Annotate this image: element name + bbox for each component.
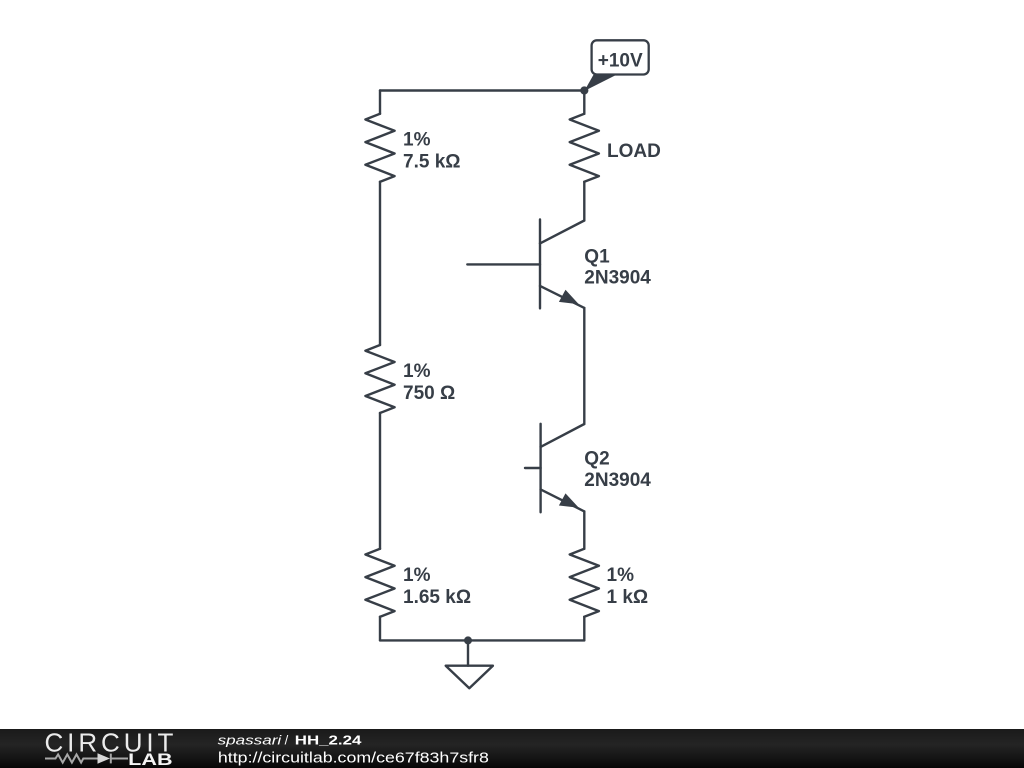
net flag +10V (584, 40, 648, 91)
label R4 value (607, 565, 649, 608)
wire top rail (380, 89, 584, 91)
wire R1 top lead (379, 91, 381, 114)
svg-text:+10V: +10V (598, 50, 643, 71)
svg-text:Q1: Q1 (584, 247, 610, 268)
wire R3 bottom lead (379, 617, 381, 641)
svg-text:1%: 1% (403, 361, 431, 382)
svg-text:HH_2.24: HH_2.24 (295, 733, 363, 748)
resistor LOAD (570, 114, 599, 182)
label R3 value (403, 565, 471, 608)
wire LOAD top lead (583, 91, 585, 114)
svg-text:spassari: spassari (218, 733, 283, 748)
ground (446, 666, 493, 689)
svg-text:LOAD: LOAD (607, 141, 661, 162)
wire R4 bottom lead (583, 617, 585, 641)
svg-text:1%: 1% (403, 130, 431, 151)
node VCC junction dot (580, 86, 588, 94)
logo resistor-diode squiggle (45, 754, 128, 764)
svg-text:/: / (285, 733, 289, 748)
wire LOAD to Q1 collector (583, 182, 585, 221)
wire Q2 emitter to R4 (583, 511, 585, 548)
label Q2 (584, 449, 651, 491)
svg-text:1%: 1% (607, 565, 635, 586)
wire ground stub (467, 640, 469, 665)
wire R1 to R2 (379, 182, 381, 345)
resistor R3 (365, 549, 394, 617)
svg-text:2N3904: 2N3904 (584, 268, 651, 289)
label R1 value (403, 130, 461, 173)
transistor Q1 (467, 220, 584, 309)
svg-text:7.5 kΩ: 7.5 kΩ (403, 152, 461, 173)
label Q1 (584, 247, 651, 289)
wire R2 to R3 (379, 413, 381, 549)
node ground junction dot (464, 636, 472, 644)
resistor R2 (365, 345, 394, 413)
transistor Q2 (525, 424, 584, 513)
svg-text:1 kΩ: 1 kΩ (607, 587, 649, 608)
svg-text:http://circuitlab.com/ce67f83h: http://circuitlab.com/ce67f83h7sfr8 (218, 751, 489, 767)
resistor R4 (570, 549, 599, 617)
svg-text:LAB: LAB (128, 751, 172, 768)
wire Q1 emitter to Q2 collector (583, 308, 585, 424)
svg-text:1.65 kΩ: 1.65 kΩ (403, 587, 471, 608)
svg-text:Q2: Q2 (584, 449, 609, 470)
resistor R1 (365, 114, 394, 182)
svg-text:2N3904: 2N3904 (584, 470, 651, 491)
svg-text:750 Ω: 750 Ω (403, 383, 455, 404)
footer bar (0, 729, 1024, 768)
svg-text:1%: 1% (403, 565, 431, 586)
wire bottom rail (380, 639, 584, 641)
label R2 value (403, 361, 455, 404)
logo diode triangle (98, 753, 111, 763)
